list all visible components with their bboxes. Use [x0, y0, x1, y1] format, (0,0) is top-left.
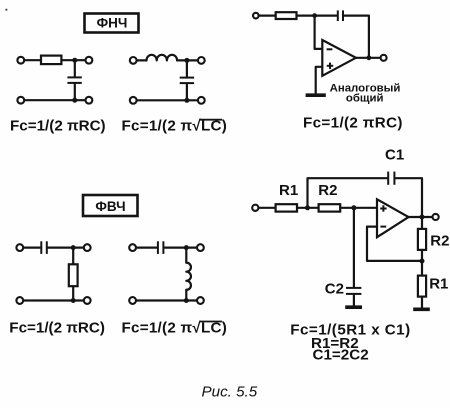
node C [420, 215, 425, 220]
wire bottom rail [136, 299, 197, 301]
wire [137, 59, 147, 61]
wire [74, 60, 76, 76]
plus sign U1 [327, 63, 333, 69]
wire output [409, 216, 433, 218]
terminal: active LPF output [381, 55, 387, 61]
wire bottom rail [24, 99, 85, 101]
svg-text:R2: R2 [318, 182, 337, 199]
wire [165, 247, 197, 249]
wire [74, 84, 76, 100]
node [184, 298, 189, 303]
node [71, 298, 76, 303]
wire [72, 286, 74, 300]
op-amp U2 [377, 199, 409, 237]
wire [421, 297, 423, 308]
wire [340, 207, 377, 209]
wire inverting input [315, 16, 323, 49]
terminal: LPF-RC input bottom [17, 97, 24, 104]
terminal: HPF-RC output top [84, 244, 91, 251]
label Аналоговый общий [330, 82, 401, 104]
capacitor shunt C (RC LPF) [67, 77, 81, 83]
resistor R2 feedback [418, 229, 426, 250]
resistor series R (RC LPF) [41, 56, 61, 65]
terminal: LPF-RC output top [86, 57, 93, 64]
label box ФНЧ [85, 14, 139, 33]
capacitor series C (RC HPF) [41, 241, 47, 254]
terminal: HPF-RC input top [16, 244, 23, 251]
formula Fc=1/(2 pi sqrt LC) (LC HPF) [122, 319, 228, 336]
svg-text:C1: C1 [385, 147, 404, 164]
svg-text:общий: общий [346, 93, 384, 105]
terminal: active LPF input [253, 13, 259, 19]
ground below C2 [345, 305, 362, 309]
svg-text:R2: R2 [430, 233, 449, 250]
terminal: HPF-RC output bottom [84, 297, 91, 304]
formula Fc=1/(2 pi sqrt LC) (LC LPF) [122, 118, 228, 135]
wire [259, 207, 276, 209]
inductor series L (LC LPF) [147, 55, 178, 61]
node [71, 245, 76, 250]
op-amp U1 [322, 40, 356, 76]
wire [185, 290, 187, 301]
wire to C2 [353, 208, 355, 287]
resistor R2 (active HPF) [319, 204, 341, 211]
wire noninverting to ground [316, 67, 323, 94]
svg-text:R1: R1 [429, 276, 448, 293]
wire [396, 178, 422, 217]
capacitor series C (LC HPF) [158, 241, 164, 254]
wire [186, 60, 188, 76]
svg-text:ФВЧ: ФВЧ [95, 199, 125, 214]
svg-text:Fc=1/(2 πRC): Fc=1/(2 πRC) [10, 118, 106, 135]
node [184, 98, 189, 103]
minus sign U1 [327, 48, 333, 50]
ground (analog common) [306, 93, 326, 97]
node A [305, 205, 310, 210]
minus sign U2 [380, 226, 386, 228]
capacitor feedback C (active LPF) [338, 10, 343, 21]
terminal: LPF-LC output top [198, 57, 205, 64]
wire [24, 59, 41, 61]
wire bottom rail [137, 99, 198, 101]
node D [420, 259, 425, 264]
wire [48, 247, 84, 249]
capacitor C2 [346, 288, 361, 294]
terminal: HPF-LC input top [129, 244, 136, 251]
terminal: LPF-RC output bottom [86, 97, 93, 104]
terminal: HPF-LC input bottom [129, 297, 136, 304]
terminal: LPF-LC input top [130, 57, 137, 64]
terminal: HPF-LC output bottom [197, 297, 204, 304]
terminal: LPF-LC input bottom [130, 97, 137, 104]
svg-text:C2: C2 [325, 280, 344, 297]
node [72, 58, 77, 63]
wire [61, 59, 85, 61]
wire [185, 248, 187, 263]
ground below R1 [413, 307, 430, 311]
node B [351, 205, 356, 210]
resistor shunt R (RC HPF) [69, 264, 78, 286]
wire feedback top rail [308, 178, 388, 208]
wire output [356, 57, 381, 59]
terminal: LPF-RC input top [17, 57, 24, 64]
capacitor C1 [388, 172, 394, 185]
scan speck [5, 9, 7, 11]
svg-text:Рис. 5.5: Рис. 5.5 [202, 384, 258, 401]
terminal: active HPF input [252, 205, 258, 211]
resistor R (active LPF) [276, 12, 297, 19]
node output [367, 55, 372, 60]
svg-text:C1=2C2: C1=2C2 [313, 347, 369, 364]
wire bottom rail [23, 299, 83, 301]
terminal: HPF-LC output top [197, 244, 204, 251]
inductor shunt L (LC HPF) [186, 263, 191, 290]
wire inverting feedback [367, 227, 422, 261]
wire [344, 16, 369, 58]
resistor R1 (active HPF) [276, 204, 297, 211]
wire [421, 217, 423, 229]
wire [23, 247, 40, 249]
svg-text:Fc=1/(2 πRC): Fc=1/(2 πRC) [303, 114, 403, 131]
node [312, 13, 317, 18]
wire [353, 295, 355, 306]
terminal: active HPF output [433, 214, 439, 220]
svg-text:Fc=1/(2 πRC): Fc=1/(2 πRC) [9, 319, 105, 336]
svg-text:R1: R1 [279, 182, 298, 199]
wire [421, 250, 423, 276]
terminal: HPF-RC input bottom [16, 297, 23, 304]
node [184, 245, 189, 250]
svg-text:ФНЧ: ФНЧ [97, 16, 128, 31]
capacitor shunt C (LC LPF) [180, 78, 194, 84]
wire [72, 248, 74, 265]
wire [177, 59, 198, 61]
plus sign U2 [380, 205, 386, 211]
wire [136, 247, 156, 249]
wire [297, 207, 319, 209]
wire [186, 84, 188, 100]
label box ФВЧ [83, 195, 138, 216]
node [184, 58, 189, 63]
wire [297, 15, 337, 17]
wire [259, 15, 276, 17]
terminal: LPF-LC output bottom [198, 97, 205, 104]
node [72, 98, 77, 103]
resistor R1 feedback [418, 276, 426, 297]
